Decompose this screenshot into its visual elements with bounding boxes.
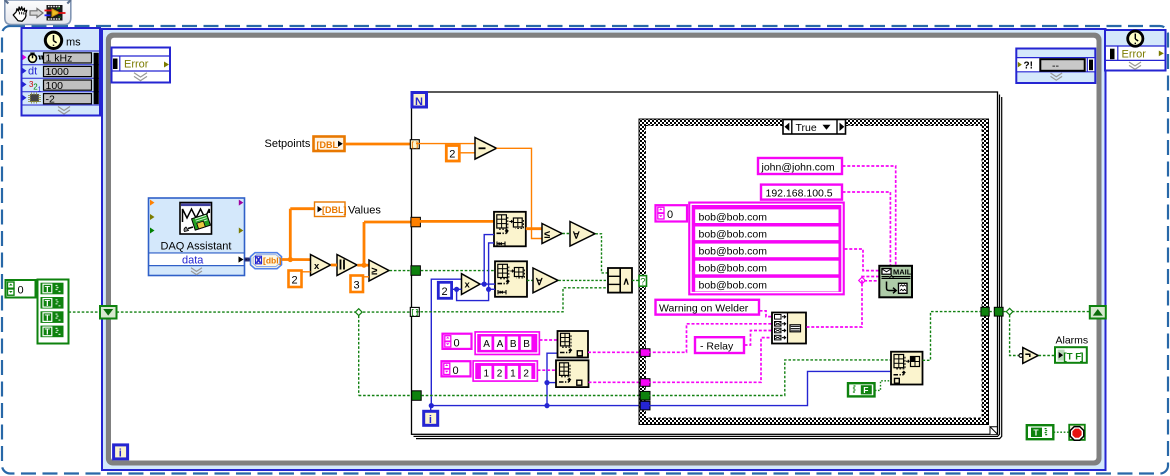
multiply node (index x2) — [462, 274, 481, 295]
svg-text:0: 0 — [667, 209, 673, 221]
svg-text:≥: ≥ — [371, 266, 377, 278]
convert from dynamic data node — [251, 253, 282, 269]
tunnel: Values array — [411, 217, 421, 227]
SMTP email send VI (MAIL) — [879, 266, 912, 298]
wire john to mail — [843, 166, 896, 266]
svg-text:2: 2 — [292, 275, 298, 287]
while loop iteration terminal i — [114, 445, 128, 460]
svg-text:data: data — [182, 255, 204, 267]
greater or equal node — [357, 260, 389, 281]
svg-text:?: ? — [640, 277, 645, 288]
bob array: elements — [689, 202, 844, 294]
svg-text:bob@bob.com: bob@bob.com — [699, 263, 768, 275]
svg-text:dt: dt — [28, 66, 37, 78]
wire AABB to index array 1 — [540, 339, 558, 341]
svg-text:[ ]: [ ] — [412, 310, 419, 317]
and array elements node 2 — [527, 268, 608, 293]
wire bool array tunnel5 to case tunnel — [417, 395, 640, 397]
svg-text:--: -- — [1052, 60, 1059, 72]
svg-text:F: F — [863, 385, 868, 395]
svg-text:3: 3 — [354, 280, 360, 292]
svg-text:x: x — [314, 261, 320, 272]
wire case tunnel2 to concatenate input4 — [648, 338, 772, 383]
concatenate strings node — [772, 313, 806, 344]
for loop count terminal N — [412, 93, 427, 108]
wire auto-indexed bool to compound input3 — [416, 288, 608, 312]
wire case tunnel green to replace array subset — [648, 360, 891, 396]
svg-text:T: T — [45, 312, 51, 322]
wire 1212 to index array 2 — [538, 369, 557, 371]
string array AABB: index — [443, 334, 472, 350]
string array 1212: index — [442, 361, 471, 377]
svg-text:1: 1 — [38, 87, 42, 94]
wire gte output (bool array) to tunnel — [390, 270, 412, 272]
wire subset1 to lte — [526, 227, 542, 230]
svg-text:192.168.100.5: 192.168.100.5 — [766, 188, 833, 200]
svg-text:N: N — [415, 96, 423, 108]
svg-text:T: T — [45, 298, 51, 308]
svg-text:True: True — [796, 122, 817, 134]
svg-text:A: A — [483, 339, 490, 350]
Values indicator [DBL] — [315, 202, 382, 217]
wire bob array to mail — [845, 249, 880, 271]
subtract node — [475, 138, 497, 160]
for loop right tunnel (bool array out) — [994, 307, 1003, 316]
loop condition stop terminal — [1069, 425, 1085, 441]
string constant - Relay — [695, 337, 744, 353]
svg-text:- Relay: - Relay — [700, 341, 734, 353]
wire ip to mail — [843, 192, 891, 266]
wire conversion to multiply (Values array) — [282, 209, 315, 262]
svg-text:2: 2 — [497, 368, 503, 379]
arrow icon — [30, 9, 43, 18]
svg-text:100: 100 — [46, 80, 64, 92]
wire boolean array to left shift register — [69, 311, 101, 313]
svg-text:1 kHz: 1 kHz — [46, 53, 73, 65]
svg-text:Alarms: Alarms — [1056, 335, 1089, 347]
case selector tunnel ? — [639, 276, 647, 288]
wire Setpoints to for-loop tunnel — [345, 143, 411, 146]
tunnel: bool array from gte — [411, 266, 421, 276]
replace array subset node — [891, 352, 923, 385]
Alarms indicator — [1055, 335, 1088, 363]
DAQ Assistant express VI — [149, 198, 245, 276]
timed loop right (?!) node inside while loop — [1016, 49, 1095, 84]
svg-text:B: B — [523, 339, 530, 350]
svg-text:bob@bob.com: bob@bob.com — [699, 211, 768, 223]
constant 2 (blue) — [438, 282, 451, 298]
bob array: index — [656, 205, 688, 221]
constant 3 (orange) — [351, 276, 370, 293]
boolean constant F — [848, 383, 875, 396]
Setpoints control [DBL] — [265, 137, 345, 152]
case selector label True — [783, 120, 846, 135]
constant 2 (orange) — [289, 271, 311, 288]
svg-text:T: T — [45, 284, 51, 294]
wire T to stop terminal — [1054, 431, 1070, 433]
svg-text:B: B — [510, 339, 517, 350]
wire index array 1 to case tunnel — [588, 351, 640, 353]
VI run icon — [45, 5, 66, 21]
svg-text:0: 0 — [18, 285, 24, 297]
svg-text:0: 0 — [454, 337, 460, 349]
svg-text:-2: -2 — [46, 93, 55, 105]
array subset node 2 — [495, 261, 527, 297]
while loop gray border — [106, 33, 1102, 466]
svg-text:john@john.com: john@john.com — [761, 162, 835, 174]
i wire vertical and multiply top input — [431, 279, 461, 405]
wire case tunnel1 to concatenate input2 — [648, 324, 772, 353]
svg-text:MAIL: MAIL — [893, 268, 912, 277]
case right tunnel (bool array out) — [981, 307, 989, 316]
wire index array 2 to case tunnel — [589, 381, 641, 383]
string array 1212: elements — [473, 361, 538, 381]
wire relay to concatenate input3 — [745, 331, 773, 346]
svg-text:[DBL: [DBL — [317, 140, 339, 150]
svg-text:bob@bob.com: bob@bob.com — [699, 228, 768, 240]
string constant Warning on Welder — [656, 300, 760, 315]
svg-text:Error: Error — [124, 59, 149, 71]
wire not to Alarms — [1039, 355, 1056, 357]
wire abs array up to Values tunnel — [364, 222, 411, 264]
index array node 2 — [556, 360, 589, 387]
for loop iteration terminal i — [424, 411, 438, 426]
wire concatenate output to mail body+subject — [807, 277, 880, 328]
boolean array constant elements (4x T) — [38, 280, 69, 344]
boolean array constant (outside left): index — [6, 280, 36, 298]
left shift register (down arrow) — [100, 306, 117, 319]
string constant 192.168.100.5 — [761, 185, 842, 200]
svg-text:[dbl]: [dbl] — [263, 256, 282, 266]
svg-text:?!: ?! — [1024, 61, 1033, 72]
wire warning to concatenate — [760, 311, 773, 317]
timed loop left Error node — [112, 48, 171, 83]
svg-text:x: x — [465, 280, 471, 291]
and array elements node 1 — [563, 222, 596, 247]
string constant john@john.com — [758, 158, 842, 174]
index array node 1 — [558, 331, 589, 358]
svg-text:∧: ∧ — [623, 277, 630, 288]
for loop frame with stacked shadow — [412, 92, 1002, 439]
floating tools palette — [5, 0, 71, 25]
wire case tunnel blue (i) to replace array subset — [648, 371, 891, 405]
wire compound to case selector — [632, 279, 639, 281]
svg-text:Error: Error — [1122, 49, 1147, 61]
absolute value node — [331, 255, 357, 276]
svg-text:ms: ms — [66, 37, 81, 49]
svg-text:0: 0 — [453, 365, 459, 377]
svg-text:2: 2 — [442, 286, 448, 298]
wire shift register to for loop (bool array) — [117, 309, 413, 396]
svg-text:[DBL]: [DBL] — [322, 205, 347, 215]
svg-text:Values: Values — [348, 205, 381, 217]
svg-text:2: 2 — [449, 149, 455, 161]
svg-text:bob@bob.com: bob@bob.com — [699, 280, 768, 292]
not node — [1019, 348, 1038, 364]
tunnel: bool array auto-index — [410, 307, 419, 316]
svg-text:T: T — [45, 327, 51, 337]
svg-text:i: i — [119, 448, 122, 460]
svg-text:i: i — [429, 414, 432, 426]
wire setpoint element to subtract — [416, 143, 475, 145]
svg-text:1: 1 — [484, 368, 490, 379]
string array AABB: elements — [475, 332, 540, 355]
boolean constant T — [1027, 425, 1054, 439]
hand cursor icon — [13, 7, 27, 21]
wires constant2 junctions to subset inputs — [452, 235, 495, 301]
dynamic data wire — [245, 258, 252, 262]
wire andarray1 to compound — [596, 234, 609, 273]
wire replace output through tunnels — [923, 312, 995, 361]
svg-text:2: 2 — [523, 368, 529, 379]
multiply node x — [311, 255, 331, 276]
tunnel: bool array passthrough — [412, 391, 422, 401]
svg-text:bob@bob.com: bob@bob.com — [699, 246, 768, 258]
timed loop right Error node — [1105, 30, 1166, 71]
case structure checkered border — [639, 119, 989, 425]
svg-text:]: ] — [1080, 351, 1084, 363]
wire bool array tunnel to array subset 2 — [416, 270, 495, 272]
svg-text:1000: 1000 — [46, 66, 70, 78]
wire Values array to array subset 1 — [416, 220, 494, 223]
wire subtract output down to lte — [497, 148, 543, 238]
svg-text:DAQ Assistant: DAQ Assistant — [161, 241, 232, 253]
wire bool array to right shift register — [1003, 308, 1090, 355]
compound arithmetic AND node — [608, 268, 632, 293]
tunnel: Setpoints auto-index — [410, 140, 419, 149]
timed loop input node (ms timing) — [22, 28, 101, 116]
svg-text:≤: ≤ — [544, 229, 550, 241]
right shift register (up arrow) — [1090, 306, 1106, 319]
case left tunnels — [640, 349, 650, 357]
array subset node 1 — [494, 212, 526, 247]
less or equal node — [542, 224, 562, 244]
wire F to replace node — [875, 381, 891, 391]
svg-text:1: 1 — [510, 368, 516, 379]
svg-text:A: A — [497, 339, 504, 350]
svg-text:Warning on Welder: Warning on Welder — [659, 303, 749, 315]
constant 2 (orange, subtract) — [446, 146, 475, 162]
svg-text:T: T — [1033, 428, 1039, 438]
i wire horizontal to index arrays and case — [429, 353, 640, 411]
svg-text:Setpoints: Setpoints — [265, 138, 311, 150]
